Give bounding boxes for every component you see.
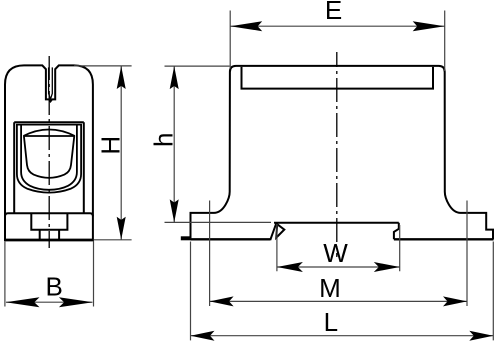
dimension H: top extension [74, 65, 132, 67]
arrowhead h bottom [170, 199, 179, 222]
dimension L: extension lines [191, 242, 494, 341]
right view: right notch [394, 223, 399, 239]
dimension E: line [230, 25, 445, 27]
dimension H: bottom extension [94, 239, 132, 241]
arrowhead h top [170, 66, 179, 89]
svg-text:E: E [325, 0, 342, 25]
right view: top strip [242, 67, 434, 89]
left view: clamp inner bucket [24, 136, 74, 178]
arrowhead H bottom [117, 217, 126, 240]
dimension L: line [191, 335, 494, 337]
left view: base top line [5, 213, 93, 216]
dimension M: extension lines [210, 201, 467, 307]
right view: centerline [336, 52, 338, 257]
svg-text:W: W [323, 238, 348, 268]
left view: window frame inner U [17, 125, 81, 193]
right view: bottom edge right foot [394, 238, 494, 240]
left view: foot wide box [31, 213, 67, 230]
left view: inner narrow slot [49, 67, 53, 99]
arrowhead W left [277, 262, 303, 272]
arrowhead E left [230, 21, 262, 31]
arrowhead L right [469, 331, 493, 341]
right view: bottom edge left foot [191, 238, 271, 240]
dimension h: bottom extension [165, 221, 272, 223]
dimension h: line [173, 66, 175, 222]
dimension W: line [277, 266, 400, 268]
arrowhead W right [374, 262, 400, 272]
svg-text:h: h [149, 133, 179, 147]
left view: window frame top line [14, 121, 84, 123]
right view: platform line [274, 222, 399, 224]
dimension W: extension lines [277, 224, 400, 271]
dimension M: line [210, 300, 467, 302]
left view: body outline with screwdriver slot opening [5, 65, 93, 241]
arrowhead E right [413, 21, 445, 31]
dimension E: extension lines [230, 11, 445, 72]
left view: bucket top line [24, 135, 75, 137]
right view: body outline [191, 66, 494, 240]
left view: foot narrow box [40, 230, 59, 240]
dimension H: line [120, 66, 122, 240]
right view: left notch diagonal edge [270, 223, 276, 240]
left view: base bottom thick line [5, 239, 94, 242]
arrowhead M right [443, 296, 467, 306]
arrowhead B left [6, 297, 40, 307]
dimension h: top extension [165, 65, 230, 67]
svg-text:L: L [324, 307, 338, 337]
left view: dome arc over bucket [23, 130, 75, 137]
arrowhead L left [191, 331, 215, 341]
dimension B: extension lines [5, 241, 94, 307]
svg-text:M: M [319, 273, 341, 303]
arrowhead M left [210, 296, 234, 306]
arrowhead H top [117, 66, 126, 89]
arrowhead B right [59, 297, 93, 307]
left view: centerline [48, 56, 50, 248]
svg-text:B: B [46, 272, 63, 302]
svg-text:H: H [95, 136, 125, 155]
left view: window frame side walls [14, 122, 84, 213]
dimension B: line [6, 301, 92, 303]
right view: left foot clip tab [181, 236, 191, 240]
left view: clamp outer U [21, 125, 77, 190]
right view: clip triangle nub [276, 224, 284, 237]
